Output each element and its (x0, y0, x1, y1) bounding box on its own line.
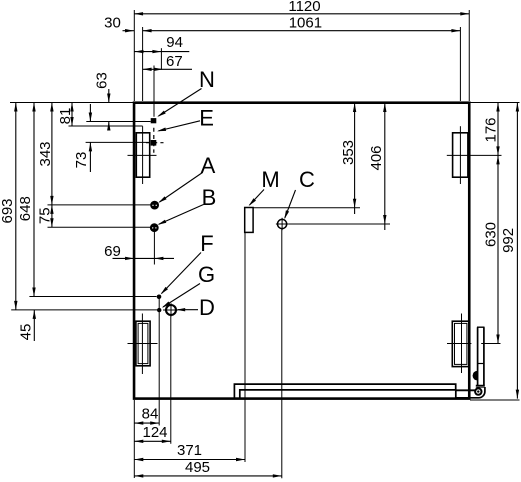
svg-text:176: 176 (483, 117, 500, 142)
svg-text:B: B (202, 185, 217, 210)
hinge bracket top-right (447, 126, 502, 184)
svg-text:124: 124 (142, 424, 167, 441)
svg-text:45: 45 (18, 324, 35, 341)
dim 1061 (143, 14, 461, 32)
label A + leader (157, 153, 215, 204)
dim 495 (134, 459, 281, 478)
hole F (157, 295, 162, 300)
dim 75 (37, 205, 54, 227)
svg-text:M: M (261, 167, 279, 192)
dim 67 (143, 53, 192, 71)
svg-text:A: A (201, 153, 216, 178)
svg-text:G: G (198, 262, 215, 287)
svg-text:630: 630 (483, 222, 500, 247)
svg-text:F: F (200, 231, 213, 256)
hole E (square with hidden centerlines) (146, 128, 164, 153)
label F + leader (159, 231, 213, 296)
dim 30 (104, 14, 134, 32)
svg-text:63: 63 (94, 72, 111, 89)
dim 69 (outside arrows) (104, 231, 174, 265)
label D + leader (176, 295, 215, 320)
extension lines left (10, 103, 158, 310)
svg-text:81: 81 (57, 108, 74, 125)
dim 693 (0, 103, 18, 310)
svg-text:75: 75 (37, 207, 54, 224)
svg-text:1061: 1061 (289, 14, 322, 31)
hole A (150, 201, 159, 210)
svg-text:30: 30 (104, 14, 121, 31)
svg-text:73: 73 (73, 152, 90, 169)
dim 371 (134, 442, 245, 461)
corner foot bottom-right (456, 327, 485, 398)
enclosure main box outline (134, 103, 469, 399)
svg-text:353: 353 (340, 140, 357, 165)
hole G (157, 308, 161, 312)
hinge bracket bottom-left (128, 314, 158, 375)
svg-text:C: C (299, 167, 315, 192)
svg-text:67: 67 (166, 53, 183, 70)
svg-text:406: 406 (368, 145, 385, 170)
label B + leader (157, 185, 217, 226)
svg-text:1120: 1120 (288, 0, 320, 15)
svg-text:693: 693 (0, 198, 16, 223)
svg-text:371: 371 (177, 442, 202, 459)
label M + leader (247, 167, 279, 207)
dim 94 (135, 34, 190, 54)
svg-text:84: 84 (142, 405, 159, 422)
dim 73 (outside arrows) (73, 104, 92, 172)
dim 45 (outside arrow below G line) (18, 310, 37, 341)
label C + leader (283, 167, 315, 220)
dim 992 (500, 103, 519, 399)
svg-text:648: 648 (17, 196, 34, 221)
extension lines top (134, 10, 469, 101)
hinge bracket top-left (128, 126, 157, 184)
dim 124 (134, 424, 171, 443)
label N + leader (156, 67, 215, 118)
dim 353 (340, 103, 357, 214)
dim 176 (483, 103, 500, 156)
svg-text:69: 69 (104, 243, 121, 260)
hinge bracket bottom-right (447, 314, 501, 374)
hole N (square) (151, 66, 157, 124)
dim 1120 (top overall) (134, 0, 469, 16)
hole B (150, 223, 159, 232)
svg-text:E: E (199, 105, 214, 130)
extension lines right (253, 103, 519, 401)
base rail bar along bottom (234, 384, 455, 398)
svg-text:94: 94 (166, 34, 183, 51)
dim 648 (17, 103, 36, 297)
svg-text:495: 495 (185, 459, 210, 476)
dim 84 (134, 405, 159, 425)
hole D (circle with crosshair) (163, 303, 178, 316)
extension lines bottom (134, 229, 281, 479)
dim 406 (368, 103, 387, 230)
dim 630 (483, 155, 500, 343)
label G + leader (161, 262, 215, 309)
svg-text:992: 992 (500, 228, 517, 253)
cutout M (small rectangle) (245, 208, 253, 233)
dim 81 (57, 103, 74, 127)
svg-text:343: 343 (37, 141, 54, 166)
svg-text:D: D (199, 295, 215, 320)
hole C (circle with crosshair) (276, 218, 288, 230)
label E + leader (157, 105, 214, 133)
dim 343 (37, 103, 54, 205)
dim 63 (outside arrows) (94, 72, 111, 130)
